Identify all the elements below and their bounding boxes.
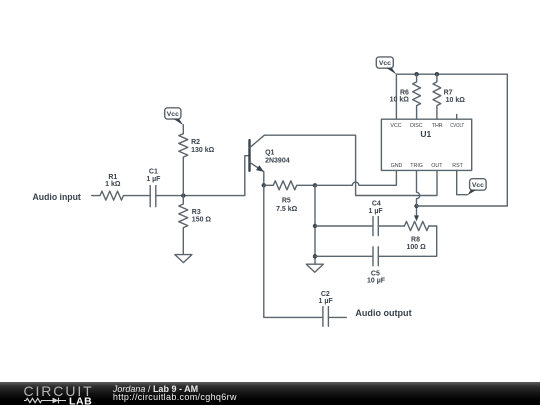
capacitor C4 [315,201,404,236]
svg-text:1 µF: 1 µF [319,298,334,305]
svg-text:Q1: Q1 [265,150,274,157]
pin OUT label [431,163,443,169]
svg-text:7.5 kΩ: 7.5 kΩ [276,206,298,213]
svg-text:OUT: OUT [431,163,443,169]
svg-text:Audio input: Audio input [33,192,82,203]
power flag Vcc (RST) [467,179,486,196]
footer bar [0,382,540,405]
svg-text:100 Ω: 100 Ω [406,244,426,251]
svg-text:C4: C4 [372,201,381,208]
wire RST to Vcc flag [457,170,468,194]
svg-text:VCC: VCC [390,123,401,129]
capacitor C1 [146,168,161,206]
logo symbol row + LAB [22,396,94,405]
wire TRIG pin down to wiper (hop over OUT wire) [417,170,420,206]
svg-text:2N3904: 2N3904 [265,157,290,164]
svg-text:Vcc: Vcc [167,111,179,118]
svg-text:LAB: LAB [69,396,92,405]
svg-text:R6: R6 [400,89,409,96]
svg-text:R5: R5 [282,197,291,204]
node junction C1/R2/R3 [181,193,185,197]
footer url text [113,393,237,402]
svg-text:RST: RST [452,163,463,169]
resistor R5 [264,181,315,213]
svg-text:R3: R3 [192,209,201,216]
resistor R3 [179,196,212,255]
power flag Vcc (R2) [165,108,184,125]
pin RST label [452,163,463,169]
svg-text:DISC: DISC [410,123,423,129]
svg-text:1 µF: 1 µF [369,208,384,215]
svg-text:130 kΩ: 130 kΩ [191,147,215,154]
node wiper junction [414,204,418,208]
capacitor C5 [315,226,437,285]
svg-text:U1: U1 [420,129,431,139]
transistor Q1 [250,135,290,185]
node C4 tap junction [313,224,317,228]
svg-text:TRIG: TRIG [410,163,423,169]
wire R5 node to GND pin (hop over collector drop) [315,170,396,185]
svg-text:R7: R7 [444,89,453,96]
wire emitter down to C2 [264,185,323,317]
resistor R7 [433,74,465,119]
pin GND label [391,163,403,169]
power flag Vcc (rail) [376,57,396,75]
svg-text:C2: C2 [321,291,330,298]
svg-text:1 kΩ: 1 kΩ [105,181,121,188]
svg-text:C1: C1 [149,168,158,175]
ground (R3) [175,255,192,263]
svg-text:R8: R8 [411,236,420,243]
node R5 right junction [313,183,317,187]
node Audio input label [33,192,82,203]
wire VCC pin [395,74,397,119]
svg-text:CVOLT: CVOLT [450,123,465,129]
op-amp U1 (IC box) [381,119,471,170]
wire C1 to base of Q1 [156,156,249,196]
svg-text:1 µF: 1 µF [146,176,161,183]
footer title text [113,385,198,394]
svg-text:Vcc: Vcc [379,60,391,67]
pin DISC label [410,123,423,129]
wire collector to OUT pin [264,135,437,195]
svg-text:R2: R2 [191,139,200,146]
potentiometer R8 [404,206,428,251]
wire wiper to Vcc rail loop [396,74,507,206]
pin VCC label [390,123,401,129]
svg-text:THR: THR [432,123,443,129]
svg-text:10 kΩ: 10 kΩ [446,97,466,104]
node C5 tap junction [313,254,317,258]
pin THR label [432,123,443,129]
ground (tap rail) [306,264,323,272]
node R6 rail junction [414,72,418,76]
logo CIRCUIT [24,385,94,398]
svg-text:Audio output: Audio output [355,308,412,319]
resistor R1 [92,174,151,200]
node R7 rail junction [435,72,439,76]
node Audio output label [355,308,412,319]
pin TRIG label [410,163,423,169]
pin CVOLT label [450,123,465,129]
svg-text:GND: GND [391,163,403,169]
resistor R6 [390,74,421,119]
capacitor C2 [319,291,347,327]
resistor R2 [179,125,215,196]
svg-text:150 Ω: 150 Ω [192,217,212,224]
svg-text:Vcc: Vcc [472,182,484,189]
svg-text:10 µF: 10 µF [367,278,386,285]
wire left tap rail [314,185,316,264]
svg-text:10 kΩ: 10 kΩ [390,97,410,104]
node emitter junction [262,183,266,187]
wire CVOLT stub [456,114,458,119]
